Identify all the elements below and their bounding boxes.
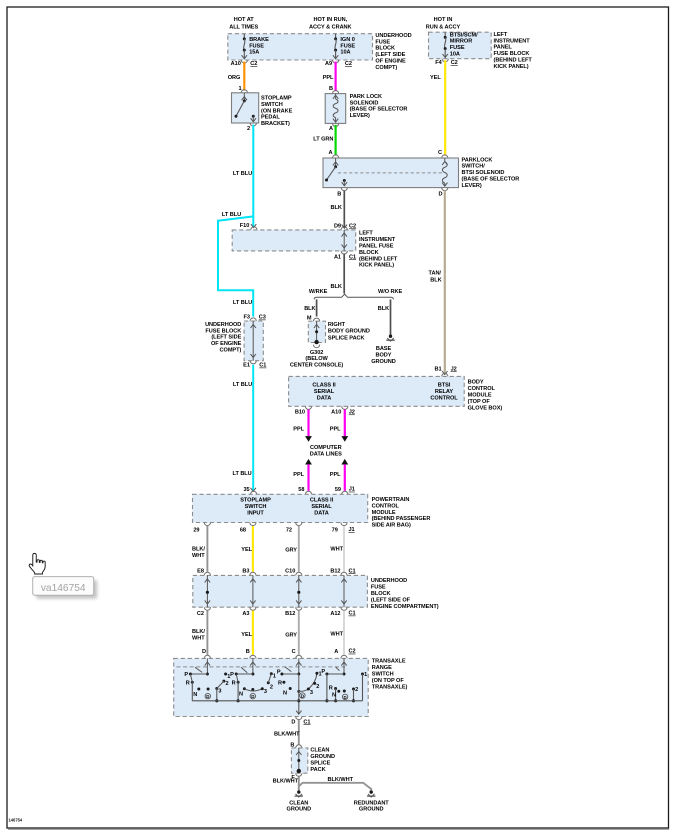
ground symbol clean ground bbox=[297, 790, 300, 793]
svg-text:R: R bbox=[278, 680, 282, 686]
svg-text:OF ENGINE: OF ENGINE bbox=[375, 59, 406, 65]
range switch section 3 wiper bbox=[298, 658, 300, 674]
right body ground splice pack internal wire bbox=[316, 321, 318, 342]
svg-text:RELAY: RELAY bbox=[435, 389, 454, 395]
range switch section 2 R to bus wire bbox=[237, 682, 239, 701]
ground symbol base body ground bbox=[389, 335, 392, 338]
left instrument panel fuse block (middle) box bbox=[232, 230, 356, 251]
svg-text:D: D bbox=[439, 192, 443, 198]
svg-text:TRANSAXLE: TRANSAXLE bbox=[372, 658, 406, 664]
svg-text:FUSE: FUSE bbox=[340, 43, 355, 49]
svg-text:SERIAL: SERIAL bbox=[311, 504, 332, 510]
svg-text:(BEHIND PASSENGER: (BEHIND PASSENGER bbox=[372, 516, 431, 522]
range switch section 4 wiper bbox=[343, 658, 345, 674]
svg-text:LEFT: LEFT bbox=[494, 32, 508, 38]
svg-text:W/O RKE: W/O RKE bbox=[378, 289, 403, 295]
svg-text:2: 2 bbox=[247, 126, 250, 132]
svg-text:SIDE AIR BAG): SIDE AIR BAG) bbox=[372, 523, 411, 529]
svg-text:PPL: PPL bbox=[293, 426, 304, 432]
range switch section 1 R to bus wire bbox=[191, 682, 193, 701]
wire BLK/WHT fuse block C2 to range switch D bbox=[206, 611, 208, 655]
svg-text:PPL: PPL bbox=[330, 426, 341, 432]
svg-text:A12: A12 bbox=[330, 611, 340, 617]
fuse block pass-through wire 2 (yel) bbox=[252, 575, 254, 607]
mechanical linkage dashed line bbox=[338, 172, 444, 174]
svg-text:D: D bbox=[301, 694, 304, 699]
svg-text:C1: C1 bbox=[349, 254, 356, 260]
svg-text:2: 2 bbox=[226, 681, 229, 687]
underhood fuse block (vertical) pass-through wire bbox=[252, 321, 254, 361]
wire BLK from ip fuse block A1 to rke split bbox=[343, 254, 345, 294]
svg-text:CENTER CONSOLE): CENTER CONSOLE) bbox=[290, 363, 344, 369]
svg-text:FUSE BLOCK: FUSE BLOCK bbox=[205, 328, 241, 334]
svg-text:A: A bbox=[329, 150, 333, 156]
rke option split brace bbox=[314, 294, 393, 299]
range switch section 4 contact 2 bbox=[352, 688, 355, 691]
svg-text:59: 59 bbox=[335, 487, 341, 493]
svg-text:3: 3 bbox=[264, 689, 267, 695]
park lock solenoid L1 box bbox=[325, 94, 346, 124]
range switch section 4 contact P bbox=[325, 673, 328, 676]
svg-text:PANEL FUSE: PANEL FUSE bbox=[359, 244, 394, 250]
range switch section 1 wiper bbox=[206, 658, 208, 674]
svg-text:SWITCH: SWITCH bbox=[245, 504, 267, 510]
svg-text:BLK/: BLK/ bbox=[192, 629, 205, 635]
svg-text:CLASS II: CLASS II bbox=[312, 382, 336, 388]
svg-text:79: 79 bbox=[332, 527, 338, 533]
svg-text:A: A bbox=[334, 649, 338, 655]
svg-text:PPL: PPL bbox=[323, 75, 334, 81]
svg-text:WHT: WHT bbox=[192, 553, 205, 559]
svg-text:A10: A10 bbox=[331, 410, 341, 416]
svg-text:C: C bbox=[292, 649, 296, 655]
svg-text:C1: C1 bbox=[349, 568, 356, 574]
clean ground splice pack box bbox=[291, 748, 307, 773]
svg-text:E1: E1 bbox=[243, 363, 250, 369]
svg-text:CONTROL: CONTROL bbox=[430, 395, 458, 401]
svg-text:GRY: GRY bbox=[285, 632, 297, 638]
svg-text:BTSI/SCM/: BTSI/SCM/ bbox=[450, 32, 478, 38]
svg-text:PPL: PPL bbox=[330, 472, 341, 478]
range switch section 4 contact R bbox=[334, 687, 337, 690]
svg-text:B: B bbox=[246, 649, 250, 655]
range switch section 3 contact 2 bbox=[313, 682, 316, 685]
svg-text:ALL TIMES: ALL TIMES bbox=[229, 25, 258, 31]
range switch section 2 contact 1 bbox=[270, 672, 273, 675]
park lock solenoid coil bbox=[333, 95, 338, 99]
svg-text:2: 2 bbox=[316, 684, 319, 690]
range switch section 3 bridge 1-2-3-D bbox=[299, 673, 317, 691]
svg-text:B: B bbox=[337, 192, 341, 198]
svg-text:HOT AT: HOT AT bbox=[234, 17, 255, 23]
svg-text:B10: B10 bbox=[295, 410, 305, 416]
svg-text:D: D bbox=[251, 694, 254, 699]
svg-text:N: N bbox=[332, 692, 336, 698]
svg-text:TRANSAXLE): TRANSAXLE) bbox=[372, 684, 408, 690]
svg-text:BLOCK: BLOCK bbox=[359, 250, 379, 256]
range switch section 4 contact 1 bbox=[361, 673, 364, 676]
range switch section 1 bridge 2-3 bbox=[217, 681, 224, 688]
svg-text:BLK: BLK bbox=[378, 306, 389, 312]
svg-text:F4: F4 bbox=[435, 60, 442, 66]
svg-text:BLK: BLK bbox=[304, 306, 315, 312]
svg-text:B12: B12 bbox=[285, 611, 295, 617]
svg-text:SPLICE PACK: SPLICE PACK bbox=[328, 335, 365, 341]
svg-text:LT GRN: LT GRN bbox=[313, 136, 333, 142]
underhood fuse block (vertical) box bbox=[244, 321, 263, 361]
svg-text:SOLENOID: SOLENOID bbox=[350, 100, 379, 106]
range switch section 3 contact P bbox=[280, 673, 283, 676]
left instrument panel fuse block (top) box bbox=[429, 32, 492, 59]
svg-text:C2: C2 bbox=[345, 61, 352, 67]
svg-text:(TOP OF: (TOP OF bbox=[468, 399, 491, 405]
svg-text:A10: A10 bbox=[231, 61, 241, 67]
svg-text:C1: C1 bbox=[349, 611, 356, 617]
svg-text:BLK/WHT: BLK/WHT bbox=[328, 777, 354, 783]
wire YEL pcm 68 to fuse block B3 bbox=[252, 526, 254, 572]
svg-text:LT BLU: LT BLU bbox=[233, 471, 252, 477]
svg-text:COMPT): COMPT) bbox=[220, 348, 242, 354]
range switch section 2 bridge 1-2 bbox=[268, 674, 271, 683]
svg-text:A1: A1 bbox=[334, 254, 341, 260]
svg-text:P: P bbox=[230, 672, 234, 678]
transaxle range switch box bbox=[174, 658, 369, 716]
range switch section 3 contact D bbox=[297, 690, 300, 693]
wire GRY pcm 72 to fuse block C10 bbox=[298, 526, 300, 572]
svg-text:UNDERHOOD: UNDERHOOD bbox=[205, 322, 241, 328]
svg-text:INSTRUMENT: INSTRUMENT bbox=[359, 237, 396, 243]
cursor hand pointer bbox=[29, 553, 45, 574]
range switch section 4 contact D bbox=[343, 690, 346, 693]
range switch section 1 contact 1 bbox=[224, 673, 227, 676]
svg-text:YEL: YEL bbox=[241, 547, 252, 553]
range switch section 2 contact N bbox=[243, 687, 246, 690]
svg-text:D: D bbox=[344, 695, 347, 700]
svg-text:POWERTRAIN: POWERTRAIN bbox=[372, 497, 410, 503]
svg-text:R: R bbox=[232, 680, 236, 686]
svg-text:ENGINE COMPARTMENT): ENGINE COMPARTMENT) bbox=[371, 604, 439, 610]
svg-text:P: P bbox=[184, 672, 188, 678]
svg-text:ACCY & CRANK: ACCY & CRANK bbox=[309, 25, 352, 31]
svg-text:WHT: WHT bbox=[192, 635, 205, 641]
svg-text:BODY GROUND: BODY GROUND bbox=[328, 329, 370, 335]
svg-text:GLOVE BOX): GLOVE BOX) bbox=[468, 405, 503, 411]
svg-text:BASE: BASE bbox=[376, 346, 392, 352]
svg-text:C1: C1 bbox=[303, 719, 310, 725]
svg-text:3: 3 bbox=[218, 689, 221, 695]
wire LT GRN from solenoid A to parklock switch pin A bbox=[335, 125, 337, 155]
svg-text:BLK: BLK bbox=[331, 205, 342, 211]
svg-text:UNDERHOOD: UNDERHOOD bbox=[371, 578, 407, 584]
svg-text:INSTRUMENT: INSTRUMENT bbox=[494, 38, 531, 44]
svg-text:P: P bbox=[321, 669, 325, 675]
svg-text:TAN/: TAN/ bbox=[429, 271, 442, 277]
svg-text:GROUND: GROUND bbox=[371, 359, 396, 365]
wire ORG from brake fuse A10 to stoplamp switch pin 1 bbox=[243, 62, 245, 91]
svg-text:N: N bbox=[193, 692, 197, 698]
svg-text:GRY: GRY bbox=[285, 548, 297, 554]
wire WHT fuse block A12 to range switch A bbox=[343, 611, 345, 655]
range switch section 1 contact R bbox=[191, 681, 194, 684]
range switch section 1 contact 3 to bus wire bbox=[216, 689, 218, 701]
svg-text:LT BLU: LT BLU bbox=[233, 300, 252, 306]
svg-text:(LEFT SIDE OF: (LEFT SIDE OF bbox=[371, 598, 411, 604]
range switch section 2 contact 3 bbox=[261, 687, 264, 690]
svg-text:2: 2 bbox=[270, 685, 273, 691]
svg-text:MODULE: MODULE bbox=[468, 392, 492, 398]
svg-text:(LEFT SIDE: (LEFT SIDE bbox=[375, 52, 405, 58]
svg-text:COMPUTER: COMPUTER bbox=[310, 445, 342, 451]
svg-text:FUSE: FUSE bbox=[375, 39, 390, 45]
stoplamp switch contacts and arm bbox=[243, 93, 245, 101]
svg-text:SWITCH: SWITCH bbox=[261, 102, 283, 108]
svg-text:LEVER): LEVER) bbox=[350, 113, 370, 119]
svg-text:G302: G302 bbox=[310, 350, 323, 356]
svg-text:(ON TOP OF: (ON TOP OF bbox=[372, 678, 405, 684]
right body ground splice pack box bbox=[308, 321, 325, 342]
svg-text:J1: J1 bbox=[349, 527, 355, 533]
svg-text:CLASS II: CLASS II bbox=[310, 498, 334, 504]
svg-text:GROUND: GROUND bbox=[287, 806, 312, 812]
wire YEL fuse block A3 to range switch B bbox=[252, 611, 254, 655]
svg-text:STOPLAMP: STOPLAMP bbox=[261, 96, 292, 102]
wire PPL class ii data (pcm 59 up) bbox=[341, 459, 348, 465]
wire LT BLU branch jog to underhood fuse block F3 bbox=[218, 216, 253, 316]
svg-text:CONTROL: CONTROL bbox=[372, 503, 400, 509]
range switch section 4 R to bus wire bbox=[335, 689, 337, 701]
svg-text:58: 58 bbox=[298, 487, 304, 493]
svg-text:BTSI: BTSI bbox=[438, 382, 451, 388]
svg-text:HOT IN RUN,: HOT IN RUN, bbox=[313, 17, 347, 23]
svg-text:INPUT: INPUT bbox=[247, 511, 264, 517]
wire BLK branch with RKE to splice pack M bbox=[316, 299, 318, 316]
svg-text:E8: E8 bbox=[197, 569, 204, 575]
svg-text:FUSE: FUSE bbox=[249, 43, 264, 49]
svg-text:C2: C2 bbox=[250, 61, 257, 67]
wire BLK/WHT branch to redundant ground bbox=[299, 783, 371, 791]
parklock switch / BTSI solenoid box bbox=[323, 158, 459, 188]
wire LT BLU from underhood fuse block E1 to pcm 35 bbox=[252, 365, 254, 491]
svg-text:(BELOW: (BELOW bbox=[305, 356, 328, 362]
svg-text:LT BLU: LT BLU bbox=[233, 171, 252, 177]
svg-text:(BEHIND LEFT: (BEHIND LEFT bbox=[359, 256, 398, 262]
svg-text:W/RKE: W/RKE bbox=[309, 289, 328, 295]
svg-text:F3: F3 bbox=[243, 315, 249, 321]
svg-text:BRAKE: BRAKE bbox=[249, 37, 269, 43]
svg-text:10A: 10A bbox=[340, 50, 350, 56]
svg-text:va146754: va146754 bbox=[41, 583, 86, 594]
range switch section 3 contact 3 bbox=[307, 688, 310, 691]
svg-text:RIGHT: RIGHT bbox=[328, 322, 346, 328]
ground symbol redundant ground bbox=[370, 790, 373, 793]
svg-text:3: 3 bbox=[310, 690, 313, 696]
wire PPL class ii data (bcm B10 down) bbox=[307, 409, 309, 436]
svg-text:C: C bbox=[438, 150, 442, 156]
svg-text:F10: F10 bbox=[240, 223, 250, 229]
svg-text:PARK LOCK: PARK LOCK bbox=[350, 94, 382, 100]
svg-text:SPLICE: SPLICE bbox=[310, 760, 330, 766]
svg-text:D: D bbox=[202, 649, 206, 655]
svg-text:C1: C1 bbox=[259, 363, 266, 369]
svg-text:(BEHIND LEFT: (BEHIND LEFT bbox=[494, 58, 533, 64]
svg-text:C2: C2 bbox=[349, 649, 356, 655]
stoplamp switch S1 box bbox=[232, 93, 259, 123]
wire PPL class ii data (pcm 58 up) bbox=[305, 459, 312, 465]
svg-text:LT BLU: LT BLU bbox=[233, 382, 252, 388]
svg-text:BTSI SOLENOID: BTSI SOLENOID bbox=[462, 170, 505, 176]
svg-text:D: D bbox=[291, 720, 295, 726]
svg-text:FUSE: FUSE bbox=[450, 45, 465, 51]
wire TAN/BLK from parklock D to bcm B1 bbox=[444, 191, 446, 373]
svg-text:BRACKET): BRACKET) bbox=[261, 121, 290, 127]
svg-text:BLK/WHT: BLK/WHT bbox=[273, 779, 299, 785]
svg-text:SWITCH: SWITCH bbox=[372, 671, 394, 677]
fuse IGN 0 10A bbox=[335, 34, 337, 39]
range switch section 2 contact R bbox=[237, 681, 240, 684]
wire BLK from parklock B to ip fuse block D9 bbox=[343, 191, 345, 228]
wire PPL class ii data (bcm A10 down) bbox=[344, 409, 346, 436]
svg-text:C10: C10 bbox=[285, 569, 295, 575]
underhood fuse block (top) box bbox=[228, 34, 373, 60]
svg-text:LT BLU: LT BLU bbox=[222, 212, 241, 218]
wire BLK/WHT range switch D to clean ground splice pack B bbox=[298, 720, 300, 745]
svg-text:UNDERHOOD: UNDERHOOD bbox=[375, 33, 411, 39]
range switch section 1 contact D bbox=[207, 688, 210, 691]
svg-text:YEL: YEL bbox=[430, 75, 441, 81]
fuse block pass-through wire 1 (blk/wht) bbox=[206, 575, 208, 607]
svg-text:WHT: WHT bbox=[330, 547, 343, 553]
svg-text:PACK: PACK bbox=[310, 767, 325, 773]
wire LT BLU from stoplamp switch 2 down to ip fuse block F10 bbox=[252, 125, 254, 228]
svg-text:CONTROL: CONTROL bbox=[468, 386, 496, 392]
svg-text:146754: 146754 bbox=[9, 818, 23, 823]
clean ground splice pack internal wire bbox=[298, 748, 300, 771]
svg-text:DATA: DATA bbox=[314, 511, 329, 517]
range switch section 1 contact P bbox=[189, 673, 192, 676]
range switch section 2 wiper bbox=[252, 658, 254, 674]
svg-text:CLEAN: CLEAN bbox=[310, 747, 329, 753]
range switch section 3 contact 1 bbox=[315, 672, 318, 675]
ip fuse block pass-through wire bbox=[343, 230, 345, 251]
range switch section 3 contact N bbox=[289, 687, 292, 690]
svg-text:J2: J2 bbox=[349, 410, 355, 416]
btsi solenoid coil bbox=[444, 158, 446, 162]
svg-text:D: D bbox=[206, 694, 209, 699]
svg-text:ORG: ORG bbox=[228, 75, 241, 81]
svg-text:P: P bbox=[277, 669, 281, 675]
range switch section 1 contact 2 bbox=[222, 680, 225, 683]
range switch section 1 contact 3 bbox=[215, 687, 218, 690]
svg-text:LEFT: LEFT bbox=[359, 231, 373, 237]
svg-text:BLK/WHT: BLK/WHT bbox=[274, 732, 300, 738]
svg-text:(ON BRAKE: (ON BRAKE bbox=[261, 108, 293, 114]
svg-text:STOPLAMP: STOPLAMP bbox=[240, 498, 271, 504]
wire GRY fuse block B12 to range switch C bbox=[298, 611, 300, 655]
svg-text:(BASE OF SELECTOR: (BASE OF SELECTOR bbox=[350, 107, 408, 113]
svg-text:35: 35 bbox=[243, 487, 249, 493]
svg-text:BLOCK: BLOCK bbox=[371, 591, 391, 597]
wire BLK branch w/o RKE to base body ground bbox=[390, 299, 392, 335]
svg-text:B1: B1 bbox=[435, 367, 442, 373]
range switch section 2 contact D bbox=[251, 688, 254, 691]
range switch section 2 bridge N-D-3 bbox=[244, 689, 262, 691]
svg-text:SWITCH/: SWITCH/ bbox=[462, 164, 486, 170]
svg-text:B12: B12 bbox=[330, 569, 340, 575]
range switch section 4 contact 1 to bus wire bbox=[362, 674, 364, 701]
svg-text:KICK PANEL): KICK PANEL) bbox=[359, 263, 394, 269]
svg-text:PANEL: PANEL bbox=[494, 45, 513, 51]
svg-text:R: R bbox=[186, 680, 190, 686]
svg-text:C2: C2 bbox=[197, 611, 204, 617]
svg-text:B3: B3 bbox=[242, 569, 249, 575]
svg-text:B: B bbox=[329, 86, 333, 92]
range switch mechanical linkage dashed line bbox=[177, 666, 346, 668]
svg-text:C2: C2 bbox=[451, 60, 458, 66]
svg-text:68: 68 bbox=[240, 527, 246, 533]
range switch section 4 contact N bbox=[337, 690, 340, 693]
svg-text:PARKLOCK: PARKLOCK bbox=[462, 157, 493, 163]
svg-text:OF ENGINE: OF ENGINE bbox=[211, 341, 242, 347]
svg-text:YEL: YEL bbox=[241, 632, 252, 638]
svg-text:PEDAL: PEDAL bbox=[261, 115, 280, 121]
svg-text:A3: A3 bbox=[242, 611, 249, 617]
range switch section 4 contact 2 to bus wire bbox=[353, 689, 355, 701]
svg-text:C3: C3 bbox=[259, 315, 266, 321]
underhood fuse block (lower) box bbox=[193, 575, 368, 607]
svg-text:2: 2 bbox=[355, 687, 358, 693]
watermark tooltip va146754 bbox=[33, 577, 98, 599]
svg-text:(BASE OF SELECTOR: (BASE OF SELECTOR bbox=[462, 177, 520, 183]
parklock switch contacts and arm bbox=[335, 158, 337, 167]
svg-text:FUSE BLOCK: FUSE BLOCK bbox=[494, 51, 530, 57]
svg-text:BODY: BODY bbox=[376, 353, 392, 359]
svg-text:N: N bbox=[283, 691, 287, 697]
svg-text:R: R bbox=[329, 685, 333, 691]
range switch section 2 contact 2 bbox=[267, 681, 270, 684]
wire YEL from btsi fuse F4 to parklock switch pin C bbox=[444, 60, 446, 155]
wire BLK/WHT pcm 29 to fuse block E8 bbox=[206, 526, 208, 572]
fuse block pass-through wire 3 (gry) bbox=[298, 575, 300, 607]
svg-text:BLK/: BLK/ bbox=[192, 547, 205, 553]
range switch common bus wire bbox=[192, 700, 362, 702]
svg-text:(LEFT SIDE: (LEFT SIDE bbox=[211, 335, 241, 341]
svg-text:RANGE: RANGE bbox=[372, 665, 392, 671]
range switch section 3 output wire to bus and pin D bbox=[298, 674, 300, 691]
svg-text:WHT: WHT bbox=[330, 631, 343, 637]
svg-text:1: 1 bbox=[364, 672, 367, 678]
wire WHT pcm 79 to fuse block B12 bbox=[343, 526, 345, 572]
fuse BRAKE 15A bbox=[243, 34, 245, 39]
svg-text:MODULE: MODULE bbox=[372, 510, 396, 516]
svg-text:C2: C2 bbox=[349, 224, 356, 230]
wire BLK/WHT splice pack F to clean ground bbox=[298, 776, 300, 790]
svg-text:COMPT): COMPT) bbox=[375, 65, 397, 71]
svg-text:15A: 15A bbox=[249, 50, 259, 56]
svg-text:MIRROR: MIRROR bbox=[450, 39, 472, 45]
range switch section 4 P to bus wire bbox=[326, 674, 328, 701]
svg-text:GROUND: GROUND bbox=[359, 806, 384, 812]
svg-text:BLK: BLK bbox=[430, 278, 441, 284]
svg-text:CLEAN: CLEAN bbox=[289, 800, 308, 806]
svg-text:HOT IN: HOT IN bbox=[434, 17, 453, 23]
svg-text:29: 29 bbox=[193, 527, 199, 533]
svg-text:REDUNDANT: REDUNDANT bbox=[354, 800, 390, 806]
range switch section 3 contact R bbox=[282, 681, 285, 684]
svg-text:1: 1 bbox=[273, 674, 276, 680]
svg-text:DATA LINES: DATA LINES bbox=[310, 451, 342, 457]
svg-text:J1: J1 bbox=[349, 487, 355, 493]
fuse BTSI/SCM/MIRROR 10A bbox=[444, 32, 446, 37]
